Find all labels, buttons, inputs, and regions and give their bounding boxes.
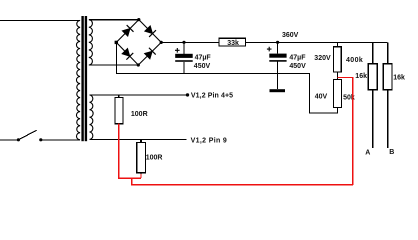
wire heater to V1,2 pin 4+5 <box>90 94 188 96</box>
svg-text:16k: 16k <box>355 73 367 80</box>
resistor 400k <box>334 47 342 72</box>
resistor 100R R5 <box>137 143 146 173</box>
resistor 16k A <box>368 64 377 90</box>
wire 33k to HT rail <box>246 41 388 43</box>
wire 100R R5 bottom stub <box>140 173 142 175</box>
resistor 50k <box>334 80 342 108</box>
svg-text:320V: 320V <box>314 55 331 62</box>
node switch contact right <box>39 138 42 141</box>
wire bridge positive rail <box>161 41 219 43</box>
node V1,2 Pin 4+5 terminal <box>186 93 189 96</box>
wire 16k A to terminal A <box>372 90 374 148</box>
resistor 100R R4 <box>115 97 123 123</box>
chassis ground bar <box>270 89 286 92</box>
node bridge DC plus <box>160 41 163 44</box>
svg-text:B: B <box>389 149 394 156</box>
svg-text:450V: 450V <box>194 63 211 70</box>
diode D1 top-left <box>122 25 133 36</box>
wire red R4 bottom down <box>119 124 141 179</box>
wire 400k top <box>336 42 338 46</box>
svg-text:33k: 33k <box>227 40 239 47</box>
transformer T1 secondary HV winding <box>89 20 93 65</box>
wire bridge negative to ground rail <box>116 42 337 112</box>
svg-text:47µF: 47µF <box>195 54 212 61</box>
svg-text:A: A <box>365 149 370 156</box>
node bridge DC minus (square) <box>115 41 118 44</box>
wire mains top <box>0 19 80 21</box>
node C1 top junction <box>182 41 185 44</box>
wire 100R R5 top stub <box>140 139 142 142</box>
wire red riser to 40V node <box>337 78 353 185</box>
wire red bottom bus <box>132 178 353 185</box>
bridge rectifier diamond <box>116 20 161 65</box>
svg-text:47µF: 47µF <box>289 55 306 62</box>
svg-text:400k: 400k <box>346 57 363 64</box>
diode D4 bottom-right <box>144 48 155 59</box>
svg-text:100R: 100R <box>131 111 148 118</box>
transformer T1 primary winding <box>76 20 80 139</box>
transformer T1 heater winding <box>90 95 94 139</box>
wire 16k B to terminal B <box>387 90 389 148</box>
wire capacitor C2 top <box>277 42 279 53</box>
svg-text:V1,2 Pin 4+5: V1,2 Pin 4+5 <box>191 92 233 99</box>
wire switch to primary <box>41 139 80 141</box>
wire secondary bottom to bridge <box>89 64 139 66</box>
wire 16k A top <box>372 42 374 63</box>
wire capacitor C2 bottom to chassis <box>277 62 279 89</box>
wire secondary top to bridge <box>89 19 139 21</box>
wire capacitor C1 bottom <box>183 62 185 74</box>
svg-text:360V: 360V <box>282 32 299 39</box>
wire red R5 bottom down <box>140 174 142 178</box>
switch S1 <box>18 130 36 140</box>
node bridge AC bottom <box>137 63 140 66</box>
svg-text:V1,2 Pin 9: V1,2 Pin 9 <box>191 138 228 145</box>
node switch contact left <box>17 138 20 141</box>
svg-text:450V: 450V <box>289 63 306 70</box>
wire mains bottom to switch <box>0 139 18 141</box>
diode D3 bottom-left <box>122 48 133 59</box>
transformer T1 core <box>81 16 83 141</box>
wire heater to V1,2 pin 9 <box>90 138 187 140</box>
capacitor C2 47uF 450V <box>267 47 287 62</box>
wire 16k B top <box>387 42 389 63</box>
node C2 top junction <box>276 41 279 44</box>
wire 400k to 50k junction <box>336 72 338 80</box>
wire capacitor C1 top <box>183 42 185 54</box>
node bridge AC top <box>137 18 140 21</box>
resistor 33k <box>219 38 246 46</box>
diode D2 top-right <box>145 26 156 37</box>
svg-text:40V: 40V <box>315 94 328 101</box>
svg-text:16k: 16k <box>393 75 405 82</box>
svg-text:100R: 100R <box>146 155 163 162</box>
capacitor C1 47uF 450V <box>175 48 193 62</box>
resistor 16k B <box>383 64 392 90</box>
wire 100R R4 top stub <box>118 95 120 98</box>
